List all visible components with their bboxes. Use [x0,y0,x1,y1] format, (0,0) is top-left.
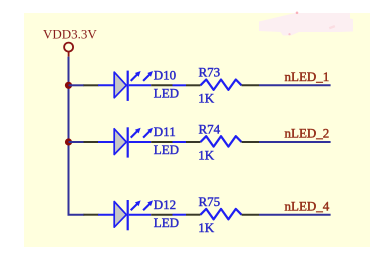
svg-text:R74: R74 [199,121,221,136]
svg-text:1K: 1K [198,147,215,162]
svg-text:R75: R75 [199,194,221,209]
svg-text:R73: R73 [199,65,221,80]
svg-text:nLED_4: nLED_4 [285,198,330,213]
svg-text:1K: 1K [198,91,215,106]
svg-text:1K: 1K [198,220,215,235]
svg-text:LED: LED [154,86,179,101]
svg-text:LED: LED [154,215,179,230]
svg-text:D10: D10 [154,68,176,83]
svg-text:D11: D11 [154,124,176,139]
svg-text:D12: D12 [154,197,176,212]
svg-text:nLED_2: nLED_2 [285,126,330,141]
svg-text:nLED_1: nLED_1 [285,69,330,84]
svg-text:LED: LED [154,142,179,157]
svg-text:VDD3.3V: VDD3.3V [43,27,97,42]
